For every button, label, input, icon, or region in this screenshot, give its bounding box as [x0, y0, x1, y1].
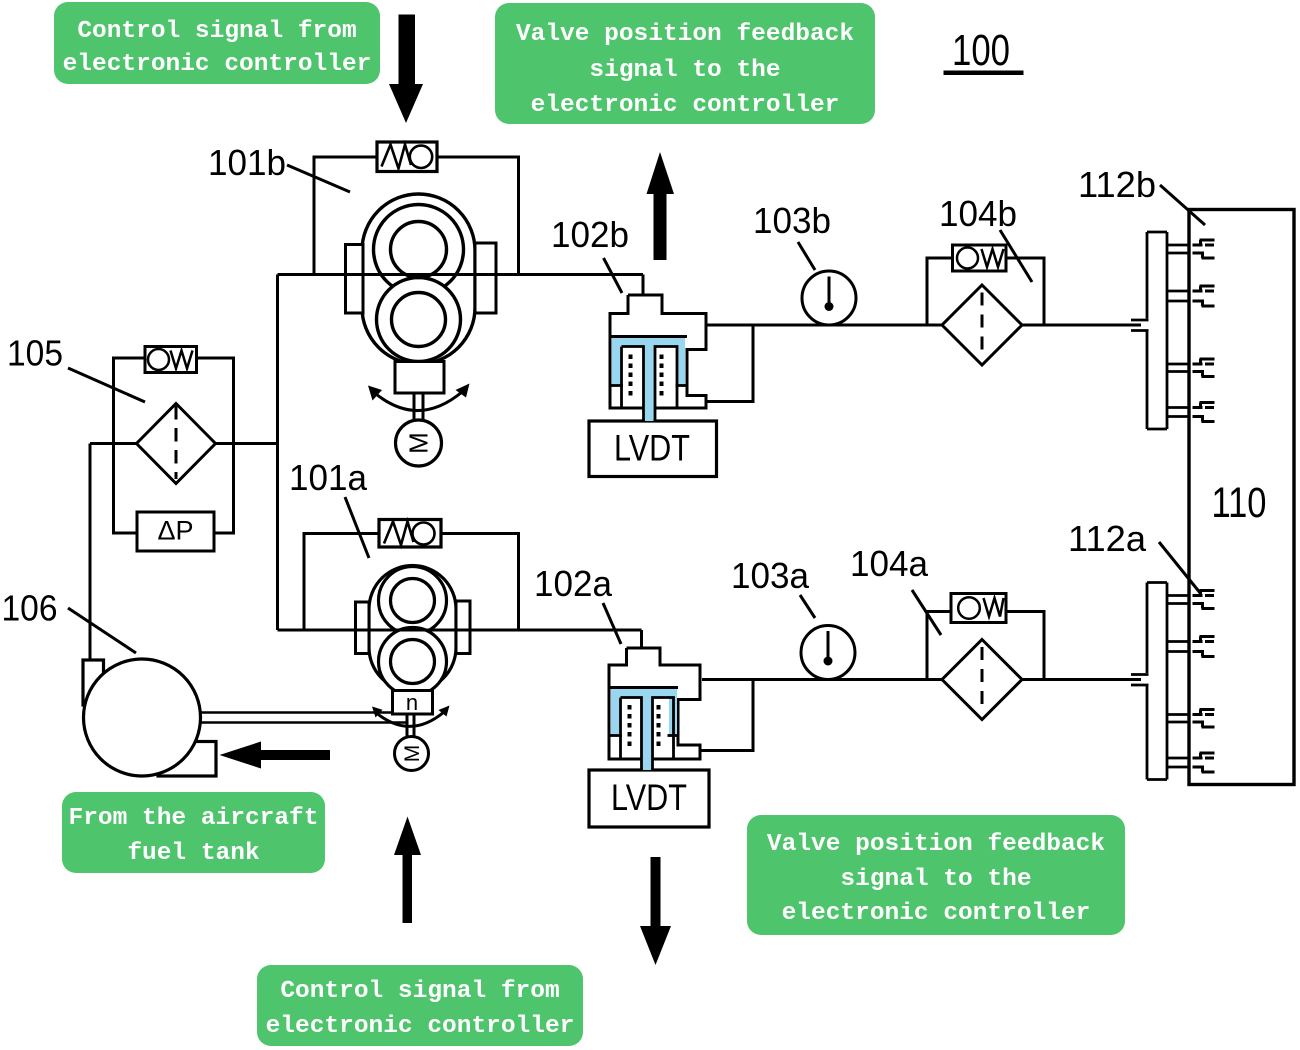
valve 102a spool metering dots	[628, 705, 661, 746]
svg-text:electronic controller: electronic controller	[782, 900, 1091, 927]
wire: row b feedback loop at valve 102b	[706, 325, 753, 402]
injector manifold 112b	[1131, 232, 1189, 429]
drive shaft from fuel pump 106 to gearbox 101a	[201, 713, 408, 723]
svg-text:103b: 103b	[753, 200, 831, 241]
svg-text:101b: 101b	[208, 142, 286, 183]
injector nozzles 112b	[1193, 240, 1215, 422]
wire: row a line over pump 101a	[278, 629, 642, 632]
arrow: control signal down (top)	[389, 15, 423, 124]
valve 102b chamber top line	[610, 335, 687, 338]
valve 102b spool windows	[612, 347, 688, 422]
wire: row a pump line y=630	[278, 629, 642, 632]
svg-text:100: 100	[952, 26, 1010, 75]
pressure relief valve (OW box) on filter 105	[145, 347, 197, 373]
pressure relief valve (OW box) on filter 104b	[953, 245, 1007, 271]
svg-text:Valve position feedback: Valve position feedback	[516, 21, 854, 48]
label 100 with underline	[944, 26, 1024, 75]
fuel manifold block 110	[1189, 210, 1294, 785]
pump unit 101b: side tabs	[346, 243, 497, 313]
label 112b	[1078, 164, 1205, 225]
wire: valve 102a inlet	[640, 630, 643, 648]
LVDT stem of valve 102a (blue)	[643, 759, 651, 770]
note box: control signal from electronic controller (bottom)	[257, 965, 583, 1046]
label 105	[7, 333, 145, 403]
label 102b	[551, 214, 629, 293]
svg-text:104a: 104a	[850, 543, 929, 584]
valve 102a spool windows	[611, 698, 680, 771]
svg-text:electronic controller: electronic controller	[531, 92, 840, 119]
manifold 112a port lines	[1167, 594, 1189, 597]
svg-text:110: 110	[1212, 479, 1267, 527]
note box: valve position feedback signal (top)	[495, 3, 875, 124]
wire: drop to fuel pump x=90	[89, 444, 92, 662]
pump unit 101b: gear circles	[374, 205, 464, 362]
valve 102a spool (blue)	[611, 689, 677, 770]
wire: filter 105 bypass frame	[114, 358, 234, 533]
arrow: fuel inflow left	[220, 742, 331, 769]
label 103a	[731, 555, 815, 618]
wire: solenoid circuit 101a	[304, 534, 379, 631]
metering valve 102b with LVDT	[589, 295, 717, 477]
label 101a	[289, 457, 369, 558]
LVDT box of valve 102a	[589, 770, 709, 827]
svg-text:102a: 102a	[534, 563, 613, 604]
svg-text:102b: 102b	[551, 214, 629, 255]
label 102a	[534, 563, 621, 644]
label 112a	[1068, 518, 1201, 594]
filter 104a diamond	[942, 640, 1022, 720]
pump unit 101a: side tabs	[356, 601, 471, 654]
svg-text:112b: 112b	[1078, 164, 1156, 205]
injector manifold 112a	[1131, 583, 1189, 780]
wire: vertical feed x=277.5 from row b to row a	[276, 275, 279, 631]
manifold 112a bar outline with split	[1147, 581, 1167, 584]
wire: row b main line to manifold y=325	[704, 324, 1141, 327]
pump unit 101a: gearbox coupling with n	[393, 691, 433, 738]
pump unit 101b: variable-displacement arc arrow	[368, 384, 470, 411]
motor M of pump 101a	[395, 737, 429, 771]
valve 102b spool metering dots	[629, 355, 664, 396]
label 103b	[753, 200, 831, 270]
valve 102a chamber top line	[609, 686, 678, 689]
note box: control signal from electronic controller (top)	[54, 2, 380, 84]
svg-text:M: M	[404, 432, 434, 454]
wire: row b line over pump 101b	[278, 273, 644, 276]
svg-text:fuel tank: fuel tank	[127, 840, 260, 867]
svg-text:signal to the: signal to the	[840, 866, 1031, 893]
delta-P sensor box on filter 105 frame	[137, 512, 214, 551]
pressure gauge 103b	[802, 271, 856, 325]
svg-text:103a: 103a	[731, 555, 810, 596]
svg-text:M: M	[401, 745, 424, 763]
svg-text:LVDT: LVDT	[611, 777, 687, 818]
svg-text:signal to the: signal to the	[589, 57, 780, 84]
filter 105 diamond	[137, 404, 216, 484]
svg-text:105: 105	[7, 333, 63, 374]
svg-text:Control signal from: Control signal from	[77, 18, 356, 45]
valve 102b body outline	[610, 295, 706, 408]
pump unit 101a: gear circles	[379, 567, 447, 696]
note box: from the aircraft fuel tank	[62, 792, 325, 873]
valve 102a body outline	[609, 648, 700, 759]
wire: filter 104a bypass frame	[927, 612, 1044, 680]
arrow: control signal up (bottom)	[394, 817, 421, 924]
pump unit 101b: gearbox coupling	[395, 362, 444, 422]
wire: row a feedback loop at valve 102a	[701, 680, 753, 751]
label 104a	[850, 543, 941, 635]
svg-text:electronic controller: electronic controller	[63, 51, 372, 78]
solenoid valve box 101b (MO)	[377, 142, 437, 172]
motor M of pump 101b	[396, 420, 442, 466]
pressure relief valve (OW box) on filter 104a	[951, 594, 1006, 623]
filter 104b diamond	[942, 285, 1022, 365]
wire: solenoid circuit 101b	[314, 157, 377, 275]
svg-text:From the aircraft: From the aircraft	[69, 805, 319, 832]
pump unit 101a: stadium housing	[369, 566, 456, 692]
label 106	[2, 588, 137, 654]
LVDT stem of valve 102b (blue)	[645, 408, 654, 421]
injector nozzles 112a	[1193, 591, 1215, 773]
svg-text:Valve position feedback: Valve position feedback	[767, 831, 1105, 858]
solenoid valve box 101a (MO)	[379, 520, 441, 548]
manifold 112b connector ticks	[1131, 319, 1149, 322]
fuel pump 106	[83, 659, 216, 776]
arrow: feedback up (top)	[647, 152, 675, 260]
label 104b	[939, 193, 1032, 282]
arrow: feedback down (bottom)	[640, 857, 671, 965]
svg-text:LVDT: LVDT	[614, 428, 690, 469]
pressure gauge 103a	[801, 626, 855, 680]
wire: filter 105 output line y=443.5	[90, 442, 278, 445]
wire: filter 104b bypass frame	[927, 258, 1044, 325]
svg-text:112a: 112a	[1068, 518, 1147, 559]
pump unit 101a: variable-displacement arc arrow	[372, 706, 450, 727]
label 101b	[208, 142, 350, 192]
wire: row a main line to manifold y=679.5	[702, 678, 1141, 681]
manifold 112a connector ticks	[1131, 673, 1149, 676]
manifold 112b bar outline with split	[1147, 231, 1167, 234]
svg-text:106: 106	[2, 588, 58, 629]
manifold 112b port lines	[1167, 244, 1189, 247]
wire: valve 102b inlet	[642, 275, 645, 296]
pump unit 101b: stadium housing	[362, 194, 475, 364]
svg-text:ΔP: ΔP	[157, 516, 193, 546]
svg-text:electronic controller: electronic controller	[266, 1013, 575, 1040]
svg-text:Control signal from: Control signal from	[280, 978, 559, 1005]
wire: row b pump line y=274.5	[278, 273, 644, 276]
metering valve 102a with LVDT	[589, 648, 709, 827]
valve 102b spool (blue)	[612, 338, 685, 421]
LVDT box of valve 102b	[589, 421, 717, 477]
svg-text:104b: 104b	[939, 193, 1017, 234]
svg-text:101a: 101a	[289, 457, 368, 498]
svg-text:n: n	[406, 690, 418, 715]
note box: valve position feedback signal (bottom)	[747, 815, 1125, 935]
